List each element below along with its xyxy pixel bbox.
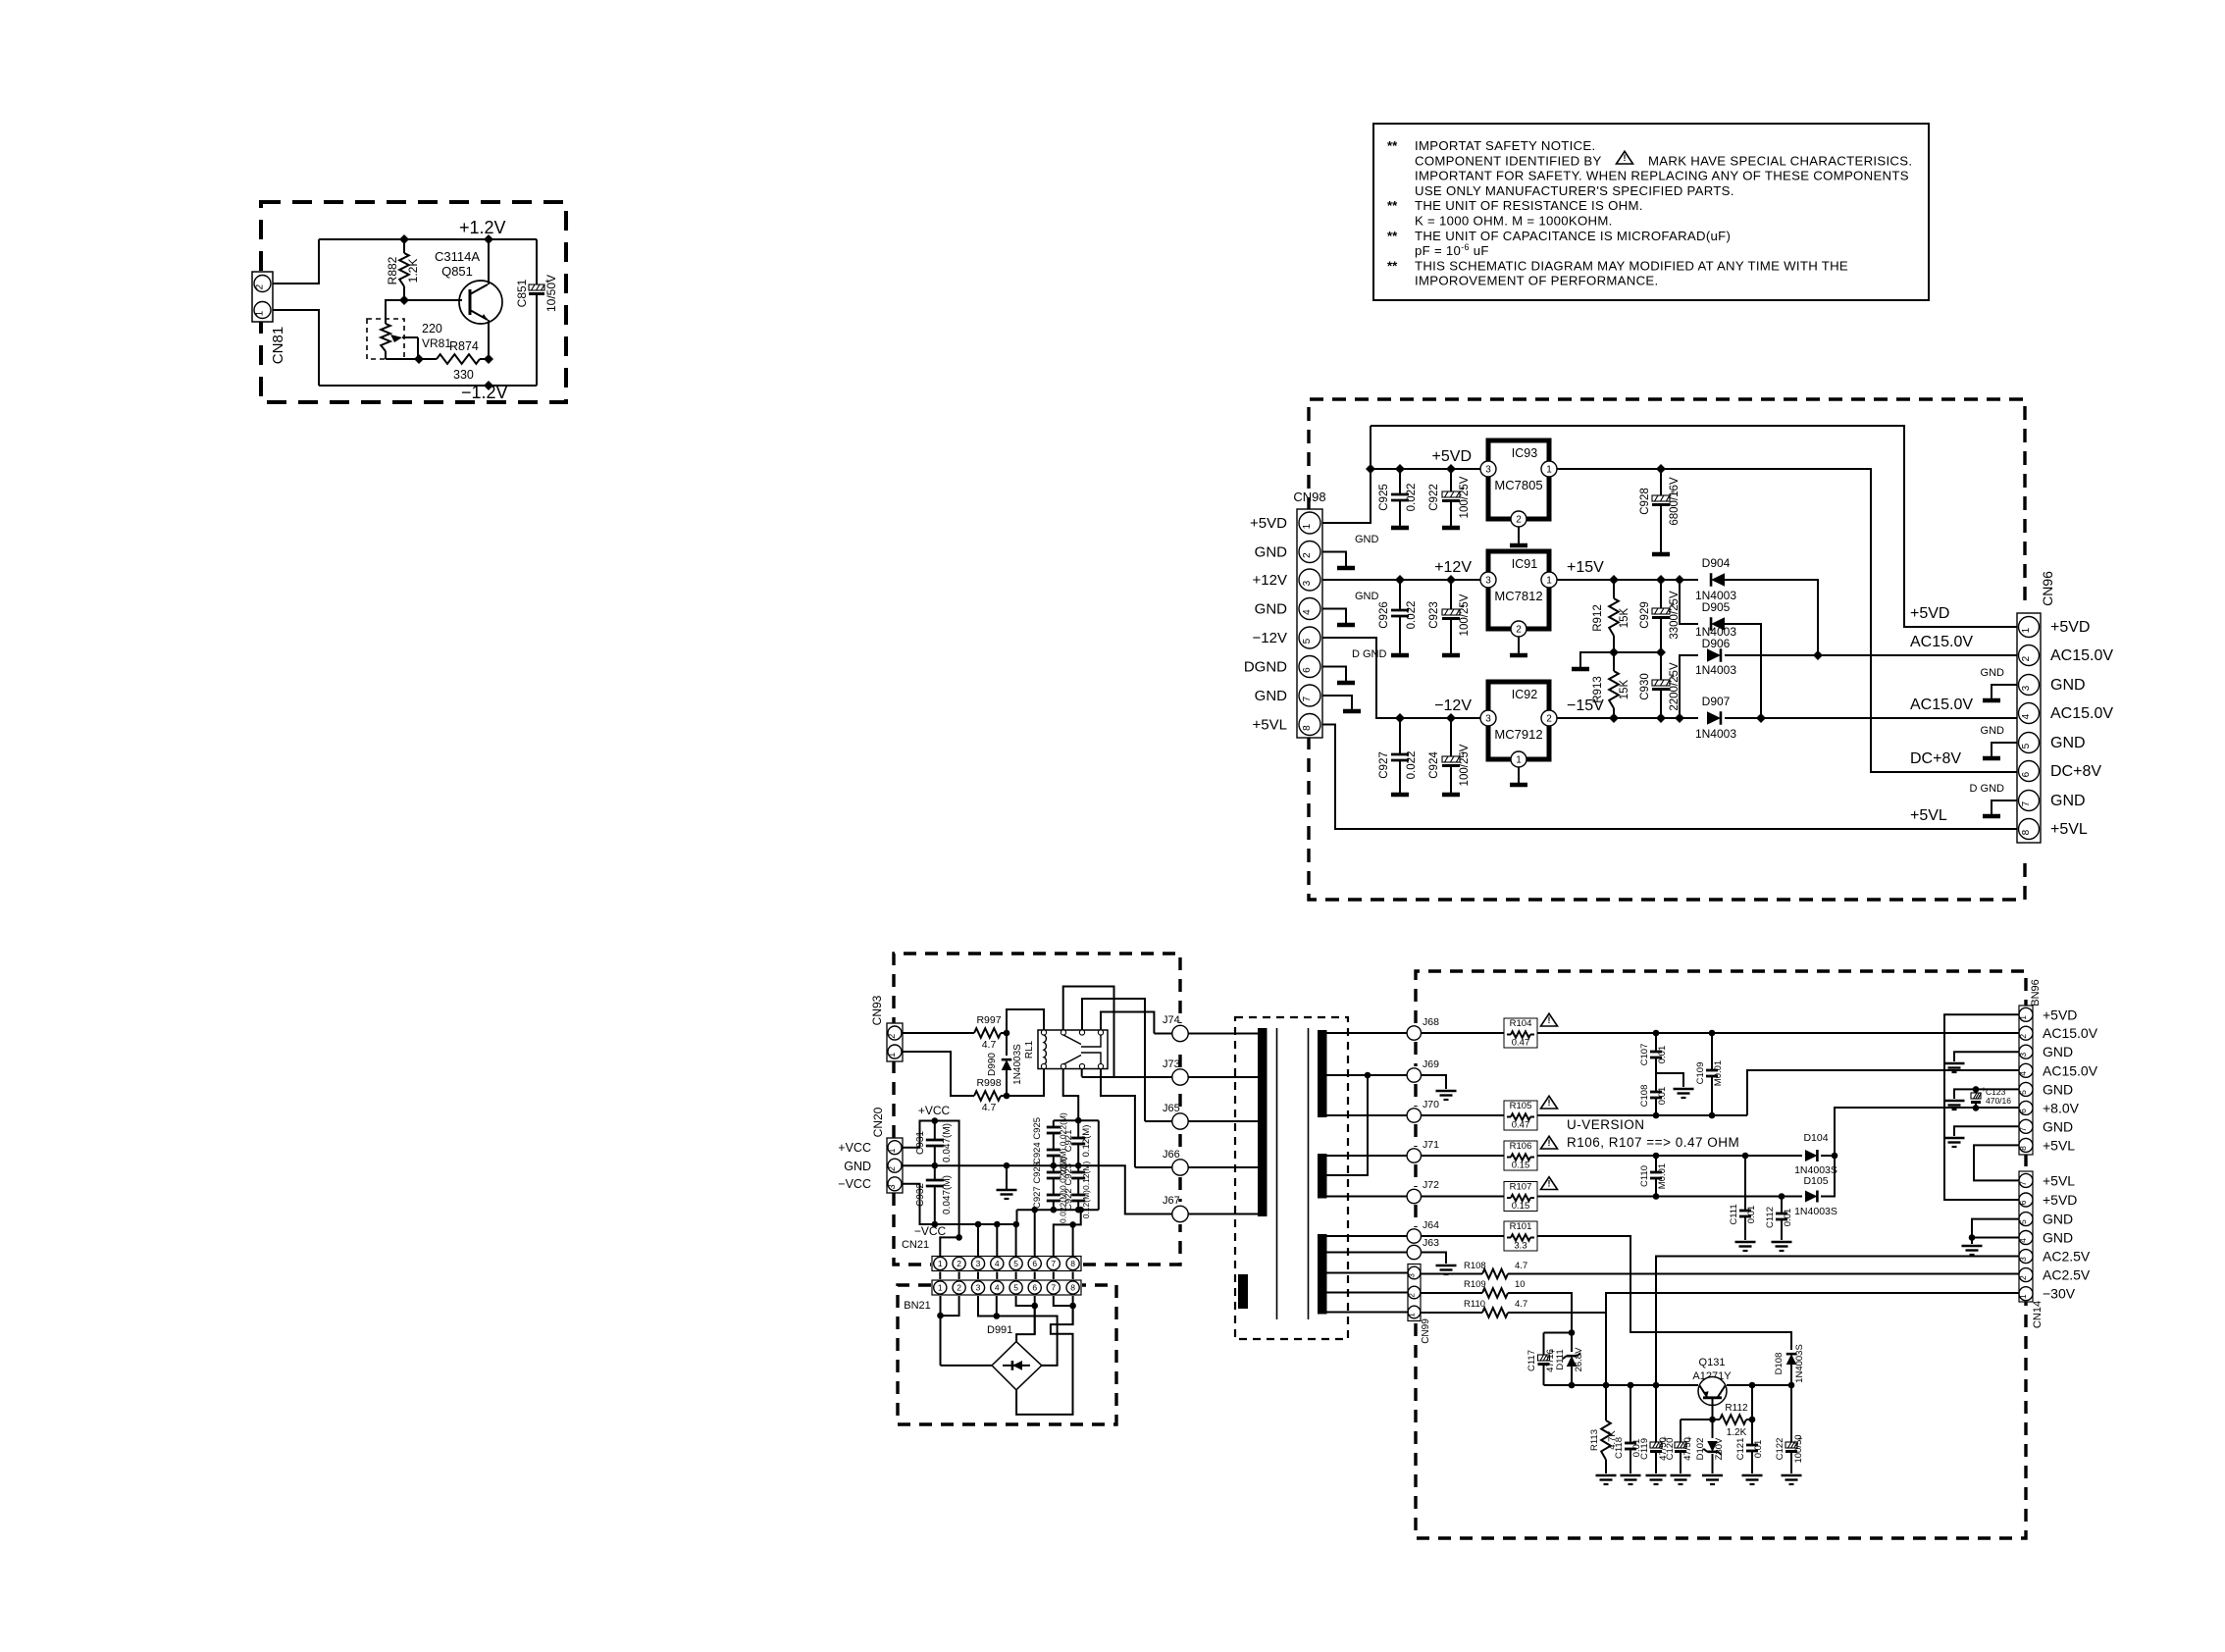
svg-text:IMPORTAT SAFETY NOTICE.: IMPORTAT SAFETY NOTICE. xyxy=(1415,138,1595,153)
svg-text:R106: R106 xyxy=(1510,1141,1532,1152)
svg-text:AC15.0V: AC15.0V xyxy=(2050,705,2113,722)
svg-text:1: 1 xyxy=(1302,523,1313,529)
svg-text:C117: C117 xyxy=(1526,1350,1537,1371)
svg-text:GND: GND xyxy=(1981,667,2005,679)
svg-text:+15V: +15V xyxy=(1567,559,1604,576)
svg-text:3: 3 xyxy=(976,1283,981,1293)
svg-text:6: 6 xyxy=(2018,1200,2028,1205)
diode D108 1N4003S xyxy=(1774,1339,1805,1385)
svg-text:8: 8 xyxy=(2018,1146,2028,1151)
wire J64 to R101 xyxy=(1422,1235,1505,1237)
dashed enclosure box CN81 section xyxy=(261,202,566,402)
wire D990 top to relay coil xyxy=(1007,1009,1044,1033)
svg-text:1: 1 xyxy=(1408,1313,1417,1317)
dashed enclosure transformer xyxy=(1235,1017,1348,1339)
svg-text:J64: J64 xyxy=(1423,1219,1439,1231)
svg-text:6: 6 xyxy=(2021,771,2032,777)
svg-text:26.8V: 26.8V xyxy=(1574,1347,1584,1371)
capacitor C929 3300/25V xyxy=(1639,580,1681,652)
svg-text:C111: C111 xyxy=(1729,1204,1739,1224)
svg-text:−VCC: −VCC xyxy=(838,1177,871,1191)
junction J72 terminal xyxy=(1327,1179,1440,1204)
wire AC15.0V to CN96 pin2 xyxy=(1725,650,2017,660)
capacitor C925 0.022 xyxy=(1378,469,1418,528)
wire -30V line to CN14 pin1 xyxy=(1606,1293,2019,1385)
wire BN21 pins7+8 to bridge bottom xyxy=(1016,1296,1076,1415)
connector BN96 xyxy=(2018,979,2042,1155)
wire CN81 pin2 to +1.2V rail xyxy=(273,239,319,284)
svg-text:6: 6 xyxy=(2018,1109,2028,1113)
svg-text:6: 6 xyxy=(1032,1283,1037,1293)
labels CN20 pins xyxy=(838,1141,871,1191)
svg-text:5: 5 xyxy=(1013,1283,1018,1293)
wire D905 branch from +15V xyxy=(1680,580,1698,624)
svg-text:6: 6 xyxy=(1302,667,1313,673)
ground CN96 pin5 GND xyxy=(1981,725,2017,758)
junction J67 terminal xyxy=(1163,1195,1188,1222)
ground CN14 pins4 and 5 xyxy=(1962,1219,2020,1255)
label +5VL at CN96 xyxy=(1910,807,1947,824)
svg-text:4: 4 xyxy=(995,1259,1000,1268)
svg-text:+5VL: +5VL xyxy=(2050,821,2088,838)
svg-text:3: 3 xyxy=(1302,580,1313,586)
resistor R874 330 xyxy=(429,339,489,382)
svg-text:J72: J72 xyxy=(1423,1179,1439,1191)
svg-text:C119: C119 xyxy=(1639,1438,1650,1460)
svg-text:C851: C851 xyxy=(515,279,529,307)
svg-text:4: 4 xyxy=(2021,713,2032,719)
svg-text:C929: C929 xyxy=(1639,601,1651,629)
svg-text:2: 2 xyxy=(957,1283,961,1293)
svg-text:7: 7 xyxy=(2021,800,2032,806)
svg-text:C120: C120 xyxy=(1665,1438,1676,1461)
variable resistor VR81 220 xyxy=(367,315,451,359)
svg-text:−1.2V: −1.2V xyxy=(461,383,508,402)
dashed enclosure BN21 section xyxy=(898,1285,1116,1424)
labels CN14 pins xyxy=(2043,1172,2091,1301)
svg-text:6800/16V: 6800/16V xyxy=(1669,477,1681,526)
resistor R113 4.7K xyxy=(1589,1385,1618,1484)
resistor R882 1.2K xyxy=(386,239,420,300)
diode D907 1N4003 xyxy=(1695,695,1736,741)
label +5VD xyxy=(1432,448,1472,465)
svg-text:5: 5 xyxy=(2018,1090,2028,1095)
wire BN21 pins5+6 to bridge top xyxy=(1016,1296,1038,1342)
svg-text:10/50V: 10/50V xyxy=(544,275,558,312)
resistor R110 4.7 xyxy=(1421,1299,1527,1317)
svg-text:1.2K: 1.2K xyxy=(1727,1427,1747,1438)
ground GND line stub xyxy=(997,1165,1017,1199)
svg-text:1N4003: 1N4003 xyxy=(1695,727,1736,741)
svg-text:Z30V: Z30V xyxy=(1714,1437,1725,1460)
svg-text:J63: J63 xyxy=(1423,1237,1439,1249)
svg-text:!: ! xyxy=(1548,1098,1551,1108)
capacitor C123 470/16 xyxy=(1971,1084,2011,1111)
svg-text:5: 5 xyxy=(1013,1259,1018,1268)
svg-text:5: 5 xyxy=(1302,638,1313,644)
svg-text:C928: C928 xyxy=(1639,488,1651,515)
wire +15V line xyxy=(1557,575,1698,585)
svg-text:D108: D108 xyxy=(1774,1353,1785,1375)
svg-text:BN96: BN96 xyxy=(2030,979,2042,1007)
wire relay pin4 bottom to J66 line xyxy=(1101,1069,1135,1168)
svg-text:5: 5 xyxy=(2018,1219,2028,1224)
svg-text:3: 3 xyxy=(2018,1053,2028,1058)
capacitor bank rails xyxy=(1017,1117,1099,1224)
connector CN98 xyxy=(1293,490,1325,738)
diode D104 1N4003S xyxy=(1794,1132,1837,1176)
resistor R101 3.3 xyxy=(1504,1221,1537,1252)
svg-text:J66: J66 xyxy=(1163,1149,1180,1161)
svg-text:+1.2V: +1.2V xyxy=(459,218,506,237)
transformer primary winding bar xyxy=(1258,1028,1268,1216)
svg-text:−12V: −12V xyxy=(1434,697,1472,714)
wire AC15.0V to CN96 pin4 xyxy=(1725,713,2017,723)
wire D906 branch from -15V xyxy=(1680,655,1698,718)
capacitor C118 0.01 xyxy=(1614,1385,1642,1484)
svg-text:!: ! xyxy=(1548,1138,1551,1148)
svg-text:R109: R109 xyxy=(1464,1279,1486,1290)
svg-text:R874: R874 xyxy=(449,339,479,353)
wire CN21 pin6 riser to cap bank bottom rail xyxy=(1031,1207,1038,1256)
transformer secondary winding bar top xyxy=(1318,1030,1327,1117)
svg-text:C927 C926: C927 C926 xyxy=(1032,1162,1043,1209)
bridge rectifier D991 xyxy=(987,1324,1042,1390)
svg-text:GND: GND xyxy=(2043,1081,2073,1097)
wire +5VD top rail to CN96 pin1 xyxy=(1371,426,2017,627)
svg-text:+5VL: +5VL xyxy=(2043,1172,2075,1188)
svg-text:!: ! xyxy=(1548,1015,1551,1025)
svg-text:IMPOROVEMENT OF PERFORMANCE.: IMPOROVEMENT OF PERFORMANCE. xyxy=(1415,274,1658,288)
svg-text:1: 1 xyxy=(255,310,266,316)
svg-text:8: 8 xyxy=(1070,1259,1075,1268)
svg-text:+5VL: +5VL xyxy=(2043,1137,2075,1153)
resistor R105 0.47 xyxy=(1504,1096,1558,1130)
svg-text:2: 2 xyxy=(1408,1293,1417,1298)
svg-text:J73: J73 xyxy=(1163,1058,1180,1070)
svg-text:4.7: 4.7 xyxy=(1515,1299,1527,1310)
svg-text:C107: C107 xyxy=(1639,1044,1650,1066)
resistor R109 10 xyxy=(1421,1279,1526,1298)
svg-text:IMPORTANT FOR SAFETY. WHEN REP: IMPORTANT FOR SAFETY. WHEN REPLACING ANY… xyxy=(1415,169,1909,183)
wire BN21 pins3+4 to bridge right xyxy=(978,1296,1058,1366)
svg-text:GND: GND xyxy=(1255,688,1288,704)
svg-text:GND: GND xyxy=(2050,735,2086,751)
label +5VD at CN96 xyxy=(1910,605,1949,622)
svg-text:C922: C922 xyxy=(1428,484,1440,511)
svg-text:220: 220 xyxy=(422,322,442,336)
capacitor C923b 0.12(M) xyxy=(1071,1165,1085,1189)
svg-text:15K: 15K xyxy=(1619,607,1630,628)
svg-text:K = 1000 OHM. M = 1000KOHM.: K = 1000 OHM. M = 1000KOHM. xyxy=(1415,214,1613,229)
wire AC15.0V line J68 to BN96 pin2 xyxy=(1537,1030,2019,1037)
svg-text:R104: R104 xyxy=(1510,1018,1532,1029)
connector CN96 xyxy=(2017,571,2055,843)
capacitor C122 100/50 xyxy=(1775,1385,1804,1484)
resistor R913 15K xyxy=(1592,652,1630,718)
svg-text:GND: GND xyxy=(1255,601,1288,618)
wire CN21 pin4 riser xyxy=(996,1224,998,1256)
svg-text:+5VL: +5VL xyxy=(1910,807,1947,824)
svg-text:THE UNIT OF RESISTANCE IS OHM.: THE UNIT OF RESISTANCE IS OHM. xyxy=(1415,198,1643,213)
capacitor C922b 0.12(M) xyxy=(1063,1162,1091,1219)
svg-text:!: ! xyxy=(1548,1179,1551,1189)
svg-text:AC15.0V: AC15.0V xyxy=(1910,634,1973,650)
svg-text:GND: GND xyxy=(2050,677,2086,694)
connector CN99 xyxy=(1327,1265,1432,1344)
svg-text:U-VERSION: U-VERSION xyxy=(1567,1117,1645,1132)
svg-text:3: 3 xyxy=(1485,576,1491,587)
svg-text:+5VL: +5VL xyxy=(1253,717,1287,734)
svg-text:1: 1 xyxy=(1546,465,1552,476)
ground CN98 pin4 GND xyxy=(1322,591,1379,625)
svg-text:3: 3 xyxy=(2021,685,2032,691)
svg-text:R113: R113 xyxy=(1589,1429,1600,1451)
svg-text:GND: GND xyxy=(2043,1230,2073,1246)
wire J71 to R106 xyxy=(1422,1155,1505,1157)
wire BN96 pin8 +5VL to CN14 pin7 xyxy=(1974,1145,2019,1180)
svg-text:R101: R101 xyxy=(1510,1221,1532,1232)
svg-text:+VCC: +VCC xyxy=(918,1104,951,1117)
svg-text:0.022: 0.022 xyxy=(1406,751,1418,780)
junction J70 terminal xyxy=(1327,1099,1440,1122)
label -15V xyxy=(1567,697,1604,714)
wire D905 to D907 line xyxy=(1725,624,1761,718)
wire relay pin4 top loop to J74 xyxy=(1101,1012,1154,1034)
capacitor C927b 0.022(M) xyxy=(1032,1157,1068,1223)
svg-text:0.47: 0.47 xyxy=(1512,1120,1530,1131)
capacitor C120 47/50 xyxy=(1665,1420,1693,1484)
wire CN81 pin1 to -1.2V rail xyxy=(273,310,319,386)
transformer secondary winding bar mid xyxy=(1318,1154,1327,1199)
svg-text:R107: R107 xyxy=(1510,1182,1532,1193)
svg-text:100/25V: 100/25V xyxy=(1459,476,1471,518)
svg-text:pF = 10-6 uF: pF = 10-6 uF xyxy=(1415,242,1489,258)
svg-text:100/25V: 100/25V xyxy=(1459,594,1471,636)
svg-text:D GND: D GND xyxy=(1970,783,2005,795)
svg-text:7: 7 xyxy=(1302,696,1313,701)
resistor R112 1.2K xyxy=(1713,1403,1756,1438)
svg-text:2: 2 xyxy=(1516,515,1522,526)
capacitor C931 0.047(M) xyxy=(915,1121,953,1166)
ground CN96 pin7 D GND xyxy=(1970,783,2017,816)
svg-text:2: 2 xyxy=(887,1034,897,1039)
svg-text:R882: R882 xyxy=(386,256,399,284)
svg-text:+5VD: +5VD xyxy=(2043,1192,2077,1208)
capacitor C928 6800/16V xyxy=(1639,469,1681,554)
svg-text:0.01: 0.01 xyxy=(1657,1087,1668,1106)
svg-text:DC+8V: DC+8V xyxy=(2050,763,2101,780)
svg-text:M0.01: M0.01 xyxy=(1657,1163,1668,1189)
svg-text:GND: GND xyxy=(1981,725,2005,737)
wire J68 to R104 xyxy=(1422,1032,1505,1034)
wire relay pin2 bottom to capacitor bank xyxy=(1063,1069,1079,1121)
wire +5VL line CN98 pin8 to CN96 pin8 xyxy=(1322,725,2017,830)
capacitor C927 0.022 xyxy=(1378,718,1418,795)
svg-text:C921: C921 xyxy=(1063,1130,1074,1153)
svg-text:0.15: 0.15 xyxy=(1512,1201,1530,1212)
ground CN96 pin3 GND xyxy=(1981,667,2017,700)
resistor R106 0.15 xyxy=(1504,1136,1558,1170)
svg-text:C931: C931 xyxy=(915,1131,926,1155)
svg-text:3: 3 xyxy=(1485,714,1491,725)
dashed enclosure BN96 section xyxy=(1416,971,2026,1538)
transformer secondary winding bar bottom xyxy=(1318,1234,1327,1315)
transistor Q131 A1271Y xyxy=(1692,1357,1732,1420)
svg-text:R998: R998 xyxy=(976,1077,1001,1089)
svg-text:0.047(M): 0.047(M) xyxy=(942,1123,953,1162)
svg-text:R108: R108 xyxy=(1464,1261,1486,1271)
connector CN21 xyxy=(902,1239,1081,1271)
relay RL1 xyxy=(1024,1030,1108,1069)
svg-text:MARK HAVE SPECIAL CHARACTERISI: MARK HAVE SPECIAL CHARACTERISICS. xyxy=(1648,153,1912,168)
svg-text:**: ** xyxy=(1387,138,1398,153)
wire CN21 pin8 riser xyxy=(1069,1221,1076,1256)
svg-text:3: 3 xyxy=(976,1259,981,1268)
labels BN96 pins xyxy=(2043,1007,2098,1153)
diode D105 1N4003S xyxy=(1794,1175,1837,1217)
svg-text:J70: J70 xyxy=(1423,1099,1439,1110)
svg-text:C930: C930 xyxy=(1639,673,1651,700)
svg-text:R997: R997 xyxy=(976,1014,1001,1026)
svg-text:IC92: IC92 xyxy=(1512,688,1537,701)
wire J69 mid tap link xyxy=(1327,1075,1369,1175)
svg-text:1N4003S: 1N4003S xyxy=(1794,1206,1837,1217)
svg-text:GND: GND xyxy=(2043,1044,2073,1059)
resistor R108 4.7 xyxy=(1421,1261,1527,1278)
junction J65 terminal xyxy=(1145,1103,1188,1129)
label AC15.0V pin4 xyxy=(1910,697,1973,713)
wire R101 to D108 xyxy=(1537,1236,1791,1339)
svg-text:BN21: BN21 xyxy=(904,1300,931,1312)
svg-text:+VCC: +VCC xyxy=(838,1141,871,1155)
svg-text:0.15: 0.15 xyxy=(1512,1161,1530,1171)
wire D904 to AC15 pin2 line xyxy=(1725,580,1818,655)
svg-text:0.022: 0.022 xyxy=(1406,601,1418,630)
svg-text:RL1: RL1 xyxy=(1024,1040,1035,1058)
wire R110 to -30V vertical xyxy=(1508,1312,1606,1314)
wire R108 to CN14 pin2 AC2.5V xyxy=(1508,1273,2019,1275)
wire R998 to relay coil bottom xyxy=(1007,1069,1044,1097)
svg-text:IC91: IC91 xyxy=(1512,557,1537,571)
svg-text:1: 1 xyxy=(887,1148,897,1153)
ground BN96 pin3 xyxy=(1944,1052,2020,1072)
svg-text:AC2.5V: AC2.5V xyxy=(2043,1249,2091,1265)
wire +VCC net xyxy=(903,1104,959,1237)
connector CN20 xyxy=(871,1107,903,1193)
svg-text:+5VD: +5VD xyxy=(1432,448,1472,465)
capacitor C851 10/50V xyxy=(515,239,558,386)
svg-text:D104: D104 xyxy=(1803,1132,1828,1144)
connector CN14 xyxy=(2018,1171,2044,1328)
svg-text:+8.0V: +8.0V xyxy=(2043,1100,2080,1115)
wire relay pin3 top loop to J65 xyxy=(1082,999,1145,1121)
svg-text:C122: C122 xyxy=(1775,1438,1785,1461)
svg-text:8: 8 xyxy=(1070,1283,1075,1293)
voltage regulator IC93 MC7805 xyxy=(1480,440,1557,527)
capacitor C930 2200/25V xyxy=(1639,652,1681,718)
svg-text:+5VD: +5VD xyxy=(2050,619,2090,636)
node junction D990 top xyxy=(1004,1030,1010,1037)
svg-text:1: 1 xyxy=(887,1053,897,1058)
svg-text:COMPONENT IDENTIFIED BY: COMPONENT IDENTIFIED BY xyxy=(1415,153,1602,168)
svg-text:2: 2 xyxy=(2021,655,2032,661)
svg-text:0.01: 0.01 xyxy=(1753,1440,1764,1459)
wire GND line CN20 pin2 to J67 xyxy=(903,1162,1172,1214)
capacitor C108 0.01 xyxy=(1639,1073,1668,1115)
svg-text:1N4003S: 1N4003S xyxy=(1012,1044,1023,1085)
svg-text:−15V: −15V xyxy=(1567,697,1604,714)
svg-text:GND: GND xyxy=(2043,1118,2073,1134)
svg-text:AC15.0V: AC15.0V xyxy=(2043,1062,2098,1078)
svg-text:DGND: DGND xyxy=(1244,659,1287,676)
connector BN21 xyxy=(904,1280,1081,1312)
capacitor C112 0.01 xyxy=(1765,1197,1793,1252)
svg-text:0.12(M): 0.12(M) xyxy=(1081,1125,1092,1158)
capacitor C922 100/25V xyxy=(1428,469,1471,528)
wire +12V line xyxy=(1322,575,1488,585)
svg-text:CN96: CN96 xyxy=(2040,571,2055,606)
wire CN98 pin1 to +5VD rails xyxy=(1322,426,1375,523)
svg-text:2: 2 xyxy=(2018,1034,2028,1039)
svg-text:D GND: D GND xyxy=(1352,648,1387,660)
svg-text:GND: GND xyxy=(2043,1212,2073,1227)
capacitor C110 M0.01 xyxy=(1639,1156,1668,1197)
svg-text:1.2K: 1.2K xyxy=(406,259,420,284)
zener diode D102 Z30V xyxy=(1695,1420,1725,1484)
svg-text:C118: C118 xyxy=(1614,1437,1625,1459)
label DC+8V at CN96 xyxy=(1910,750,1961,767)
svg-text:2: 2 xyxy=(1302,552,1313,558)
svg-text:0.01: 0.01 xyxy=(1657,1046,1668,1064)
svg-text:C112: C112 xyxy=(1765,1207,1776,1228)
svg-text:47/50: 47/50 xyxy=(1682,1437,1693,1461)
diode D904 1N4003 xyxy=(1695,556,1736,602)
wire AC2.5V pin3 line xyxy=(1656,1257,2019,1386)
svg-text:**: ** xyxy=(1387,229,1398,243)
svg-text:7: 7 xyxy=(2018,1181,2028,1186)
svg-text:10: 10 xyxy=(1515,1279,1526,1290)
svg-text:R912: R912 xyxy=(1592,604,1604,632)
svg-text:1: 1 xyxy=(1546,576,1552,587)
svg-text:330: 330 xyxy=(453,368,474,382)
label +1.2V xyxy=(459,218,506,237)
svg-text:8: 8 xyxy=(1302,725,1313,731)
svg-text:7: 7 xyxy=(1051,1283,1056,1293)
capacitor C932 0.047(M) xyxy=(915,1165,953,1224)
svg-text:AC15.0V: AC15.0V xyxy=(1910,697,1973,713)
svg-text:Q131: Q131 xyxy=(1699,1357,1726,1368)
wire CN21 pin7 riser xyxy=(1054,1210,1081,1256)
resistor R998 4.7 xyxy=(972,1077,1007,1113)
svg-text:3: 3 xyxy=(887,1185,897,1190)
svg-text:R112: R112 xyxy=(1725,1403,1748,1414)
svg-text:MC7805: MC7805 xyxy=(1494,478,1542,492)
resistor R104 0.47 xyxy=(1504,1013,1558,1048)
wire BN21 pins1+2 to bridge left xyxy=(937,1296,992,1366)
svg-text:J67: J67 xyxy=(1163,1195,1180,1207)
svg-text:1: 1 xyxy=(1516,755,1522,766)
wire -12V line xyxy=(1322,638,1488,723)
svg-text:MC7912: MC7912 xyxy=(1494,727,1542,742)
junction J69 terminal xyxy=(1327,1058,1440,1082)
svg-text:!: ! xyxy=(1624,153,1627,163)
svg-text:1: 1 xyxy=(938,1283,943,1293)
svg-text:8: 8 xyxy=(2021,829,2032,835)
junction J74 terminal xyxy=(1154,1014,1188,1042)
svg-text:C924 C925: C924 C925 xyxy=(1032,1117,1043,1164)
zener diode D111 26.8V xyxy=(1555,1333,1584,1389)
